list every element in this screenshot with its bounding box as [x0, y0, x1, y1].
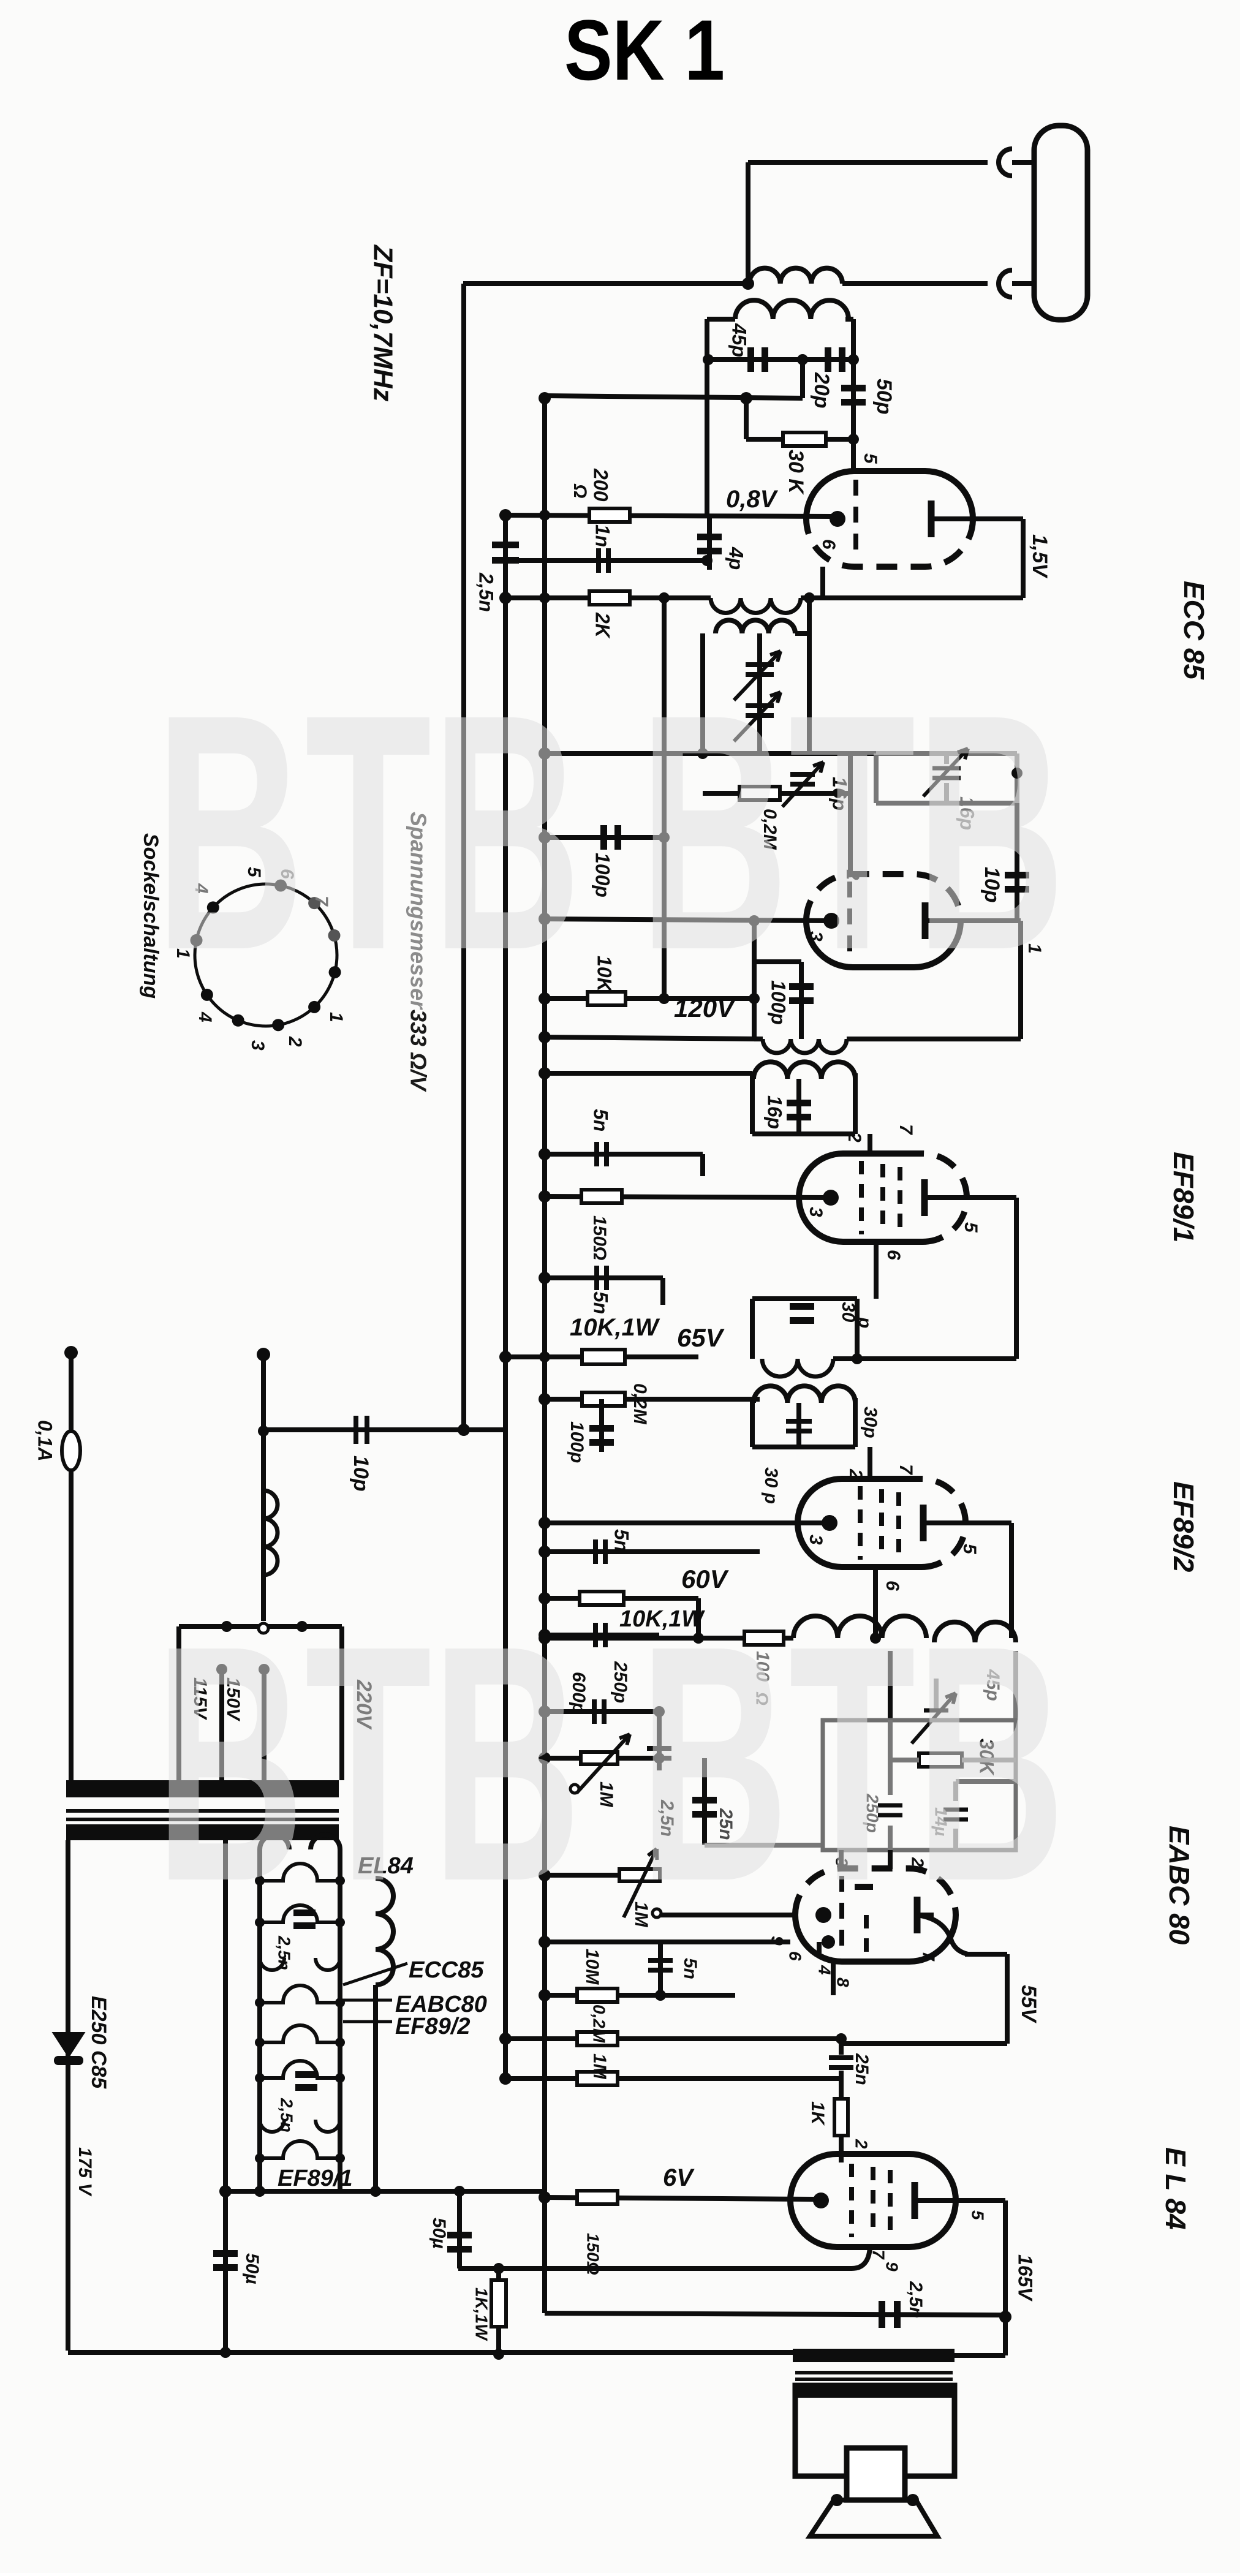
svg-text:1M: 1M [589, 2053, 610, 2080]
svg-text:6: 6 [883, 1250, 904, 1260]
svg-text:2: 2 [285, 1036, 305, 1047]
svg-text:50µ: 50µ [242, 2253, 262, 2284]
svg-text:ZF=10,7MHz: ZF=10,7MHz [368, 244, 398, 402]
svg-text:2,5n: 2,5n [475, 572, 497, 612]
svg-text:5: 5 [860, 453, 880, 464]
svg-text:16p: 16p [764, 1095, 786, 1129]
svg-text:2: 2 [844, 1131, 864, 1143]
svg-text:150Ω: 150Ω [589, 1215, 610, 1260]
svg-text:30 p: 30 p [761, 1467, 781, 1504]
svg-text:7: 7 [896, 1464, 916, 1475]
svg-text:30 K: 30 K [784, 450, 807, 495]
svg-text:EABC 80: EABC 80 [1163, 1826, 1195, 1945]
svg-text:5: 5 [959, 1544, 980, 1555]
svg-text:30p: 30p [860, 1407, 880, 1438]
svg-text:BTB BTB: BTB BTB [155, 645, 1065, 1020]
svg-text:EF89/1: EF89/1 [1168, 1152, 1200, 1242]
svg-text:175 V: 175 V [75, 2147, 95, 2197]
svg-text:333 Ω/V: 333 Ω/V [406, 1010, 431, 1092]
svg-text:200: 200 [590, 468, 612, 502]
svg-text:25n: 25n [852, 2053, 872, 2085]
svg-text:EF89/1: EF89/1 [278, 2166, 353, 2191]
svg-text:9: 9 [883, 2262, 902, 2272]
svg-text:45p: 45p [728, 323, 750, 357]
svg-text:5: 5 [961, 1222, 981, 1233]
svg-text:10K,1W: 10K,1W [570, 1314, 660, 1341]
svg-text:10p: 10p [349, 1456, 372, 1492]
svg-text:0,8V: 0,8V [726, 486, 779, 513]
svg-text:2: 2 [852, 2139, 871, 2149]
svg-text:6: 6 [786, 1951, 805, 1961]
svg-text:0,2M: 0,2M [590, 2004, 609, 2043]
svg-text:Ω: Ω [570, 483, 590, 498]
svg-text:E L 84: E L 84 [1160, 2147, 1192, 2230]
svg-text:p: p [855, 1316, 875, 1328]
svg-text:50p: 50p [872, 379, 896, 415]
svg-text:E250 C85: E250 C85 [87, 1996, 110, 2089]
svg-text:1K,1W: 1K,1W [472, 2287, 491, 2341]
svg-text:6: 6 [818, 539, 839, 550]
svg-text:55V: 55V [1017, 1985, 1040, 2024]
svg-text:20p: 20p [810, 372, 833, 409]
svg-text:5: 5 [969, 2210, 988, 2220]
svg-text:2,5n: 2,5n [905, 2281, 926, 2318]
svg-text:65V: 65V [677, 1323, 725, 1352]
svg-text:3: 3 [806, 1207, 826, 1217]
svg-text:ECC 85: ECC 85 [1178, 581, 1210, 680]
svg-text:1n: 1n [592, 524, 614, 547]
svg-text:2K: 2K [592, 612, 614, 640]
svg-text:5n: 5n [590, 1109, 612, 1131]
svg-text:ECC85: ECC85 [409, 1957, 484, 1983]
svg-text:EF89/2: EF89/2 [395, 2014, 471, 2039]
svg-text:1K: 1K [807, 2101, 828, 2126]
svg-text:10M: 10M [582, 1949, 602, 1985]
svg-text:7: 7 [896, 1124, 916, 1135]
svg-text:0,1A: 0,1A [34, 1420, 56, 1462]
svg-text:6V: 6V [663, 2164, 695, 2191]
svg-text:BTB BTB: BTB BTB [155, 1576, 1065, 1951]
svg-text:50µ: 50µ [429, 2218, 449, 2249]
svg-text:EF89/2: EF89/2 [1168, 1481, 1200, 1573]
svg-text:4p: 4p [725, 546, 747, 570]
svg-text:8: 8 [834, 1977, 853, 1987]
svg-text:1,5V: 1,5V [1028, 534, 1051, 579]
svg-text:3: 3 [248, 1040, 268, 1051]
svg-text:3: 3 [806, 1535, 826, 1545]
svg-text:7: 7 [920, 1951, 939, 1962]
svg-text:165V: 165V [1015, 2254, 1037, 2302]
svg-text:100p: 100p [567, 1421, 587, 1463]
svg-text:0,2M: 0,2M [630, 1383, 650, 1425]
svg-text:5n: 5n [680, 1958, 700, 1979]
svg-text:5n: 5n [590, 1291, 612, 1314]
svg-text:SK 1: SK 1 [564, 2, 725, 98]
svg-text:5n: 5n [611, 1529, 633, 1552]
